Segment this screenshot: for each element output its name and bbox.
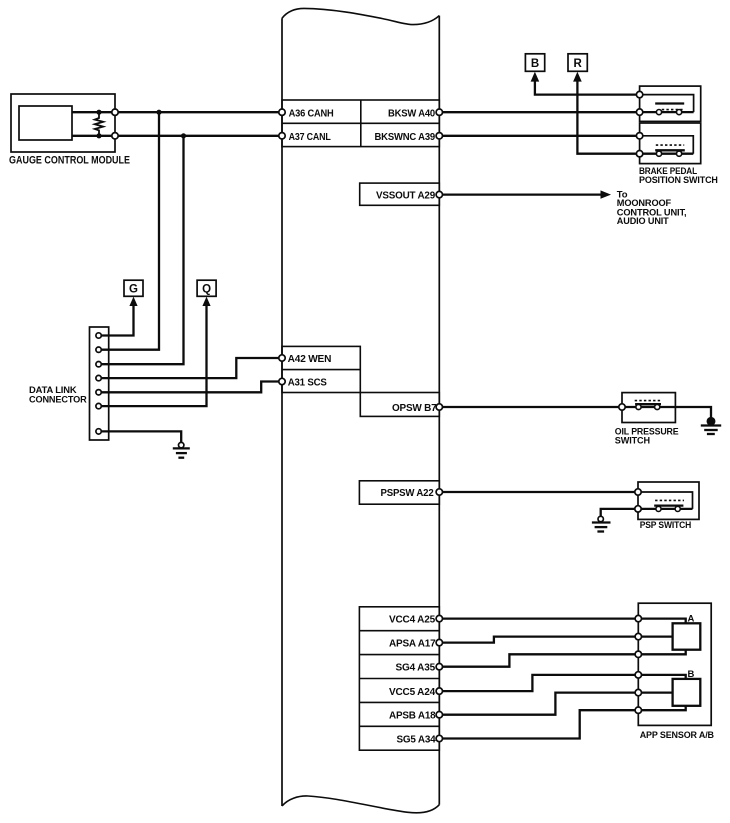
- svg-text:A42 WEN: A42 WEN: [288, 354, 332, 365]
- svg-text:VCC5 A24: VCC5 A24: [389, 687, 436, 698]
- APP sensor housing terminals (open circles): [635, 615, 641, 713]
- ECM pin terminals (open circles) on band edges: [96, 109, 443, 742]
- svg-text:VSSOUT A29: VSSOUT A29: [376, 190, 436, 201]
- arrowhead to R: [573, 72, 582, 82]
- pin label box OPSW B7: [360, 393, 439, 417]
- wire APSB A18 to APP sensor: [439, 693, 638, 715]
- brake switch 1 contact terminals: [656, 110, 681, 115]
- arrowhead to B: [531, 72, 540, 82]
- junction dot CANL/DLC branch: [181, 133, 186, 138]
- ECM band wavy bottom edge: [282, 796, 439, 813]
- DLC pin 7: [96, 429, 101, 434]
- PSP switch movable bar: [654, 504, 683, 506]
- pin label box PSPSW A22: [359, 481, 439, 504]
- svg-text:G: G: [129, 284, 138, 296]
- svg-text:SG4 A35: SG4 A35: [396, 663, 436, 674]
- ground symbol (DLC): [173, 442, 190, 457]
- wire brake switch to connector B: [535, 80, 640, 94]
- wire SG5 A34 to APP sensor: [439, 710, 638, 738]
- connector G box: [124, 280, 143, 296]
- wire oil pressure switch to ground: [675, 407, 711, 419]
- svg-text:A37 CANL: A37 CANL: [289, 132, 331, 143]
- terminal A35: [436, 664, 442, 670]
- DLC pin 2: [96, 347, 101, 352]
- DLC pin 1: [96, 333, 101, 338]
- svg-text:Q: Q: [202, 284, 211, 296]
- terminal A25: [436, 615, 442, 621]
- PSP switch contact terminals: [656, 506, 680, 511]
- PSP switch dotted travel line: [655, 499, 684, 501]
- svg-text:SG5 A34: SG5 A34: [397, 734, 437, 745]
- pin label box A36 CANH / A37 CANL / BKSW A40 / BKSWNC A39 (2x2 grid): [282, 100, 439, 147]
- svg-text:PSP SWITCH: PSP SWITCH: [640, 520, 692, 531]
- PSP switch housing terminals: [635, 489, 641, 512]
- brake switch 1 movable bar: [655, 102, 684, 104]
- brake switch 2 movable bar: [655, 149, 685, 151]
- oil pressure switch housing: [622, 393, 675, 423]
- APP sensor A/B housing: [638, 603, 711, 725]
- svg-text:R: R: [573, 58, 582, 70]
- terminal A36: [279, 109, 285, 115]
- wire BKSWNC A39 to brake pedal position switch: [439, 135, 639, 137]
- gauge control module outer box: [11, 94, 115, 152]
- wire brake switch to connector R: [577, 80, 639, 153]
- connector R box: [568, 54, 587, 72]
- wire DLC pin6 to connector Q: [99, 304, 207, 407]
- wire VCC5 A24 to APP sensor: [439, 675, 638, 691]
- wire CANL drop to DLC pin3: [99, 136, 184, 364]
- svg-text:B: B: [688, 669, 695, 680]
- brake switch 2 contact frame: [640, 136, 694, 154]
- svg-text:GAUGE CONTROL MODULE: GAUGE CONTROL MODULE: [9, 155, 130, 167]
- wire CANH from gauge module to ECM A36: [72, 111, 282, 113]
- wire CANH drop to DLC pin2: [99, 112, 159, 350]
- terminal gauge module CANL: [112, 133, 118, 139]
- svg-text:OPSW B7: OPSW B7: [392, 403, 437, 414]
- terminal A24: [436, 688, 442, 694]
- APP sensor internal wire pin6 to sensor B bottom: [638, 706, 685, 710]
- terminal gauge module CANH: [112, 109, 118, 115]
- wire PSP switch to ground: [601, 509, 638, 516]
- svg-text:POSITION SWITCH: POSITION SWITCH: [639, 175, 718, 186]
- wire DLC pin4 to ECM A42 WEN: [99, 358, 282, 378]
- APP sensor element B box: [673, 679, 701, 706]
- connector Q box: [197, 280, 216, 296]
- APP sensor internal wire pin3 to sensor A bottom: [638, 650, 685, 655]
- pin label box VCC4/APSA/SG4/VCC5/APSB/SG5 (6 rows): [359, 607, 439, 750]
- wire DLC pin1 to connector G: [99, 304, 134, 336]
- brake switch 2 dotted travel line: [656, 144, 684, 146]
- arrowhead VSSOUT: [601, 190, 612, 198]
- APP sensor internal wire pin4 to sensor B top: [638, 675, 685, 679]
- svg-text:APSB A18: APSB A18: [389, 711, 436, 722]
- svg-text:CONNECTOR: CONNECTOR: [29, 395, 87, 406]
- svg-text:SWITCH: SWITCH: [615, 435, 650, 446]
- ECM connector band right edge: [438, 16, 440, 805]
- terminal A42: [279, 355, 285, 361]
- terminal A37: [279, 133, 285, 139]
- brake switch 1 dotted travel line: [662, 109, 685, 111]
- wire VCC4 A25 to APP sensor: [439, 617, 638, 619]
- arrowhead to Q: [202, 297, 210, 306]
- APP sensor internal wire pin5 to sensor B left: [638, 691, 672, 693]
- PSP switch contact frame: [638, 492, 693, 509]
- junction dot CANH/DLC branch: [156, 110, 161, 115]
- svg-text:A31 SCS: A31 SCS: [288, 377, 328, 388]
- brake pedal position switch upper housing: [640, 86, 701, 121]
- brake switch 1 contact frame: [640, 95, 694, 113]
- wire PSPSW A22 to PSP switch: [439, 491, 638, 493]
- svg-text:PSPSW A22: PSPSW A22: [381, 488, 435, 499]
- svg-text:AUDIO UNIT: AUDIO UNIT: [617, 216, 669, 227]
- PSP switch housing: [638, 482, 699, 519]
- junction dot resistor top: [96, 110, 101, 115]
- brake pedal position switch lower housing: [640, 123, 701, 164]
- APP sensor internal wire pin2 to sensor A left: [638, 635, 672, 637]
- resistor (CAN termination) in gauge module: [95, 112, 103, 136]
- gauge control module inner unit box: [19, 106, 72, 140]
- terminal A31: [279, 378, 285, 384]
- APP sensor element A box: [673, 623, 701, 649]
- wire OPSW B7 to oil pressure switch: [439, 406, 622, 408]
- terminal A40: [436, 109, 442, 115]
- oil pressure switch contact terminals: [636, 404, 660, 409]
- svg-text:A: A: [688, 614, 695, 625]
- pin label box VSSOUT A29: [360, 183, 440, 205]
- terminal A34: [436, 735, 442, 741]
- wire DLC pin5 to ECM A31 SCS: [99, 382, 282, 393]
- junction dot resistor bottom: [96, 133, 101, 138]
- connector B box: [525, 54, 544, 72]
- terminal A29: [436, 191, 442, 197]
- brake switch housing terminals (open circles): [636, 91, 642, 156]
- ground symbol (PSP switch): [592, 516, 611, 531]
- terminal A22: [436, 489, 442, 495]
- wire CANL from gauge module to ECM A37: [72, 135, 282, 137]
- svg-text:B: B: [531, 58, 539, 70]
- svg-text:VCC4 A25: VCC4 A25: [389, 614, 436, 625]
- ground symbol (oil pressure switch, solid dot): [701, 418, 721, 434]
- arrowhead to G: [129, 297, 137, 306]
- data link connector body: [90, 327, 109, 440]
- DLC pin 5: [96, 390, 101, 395]
- terminal A39: [436, 133, 442, 139]
- APP sensor internal wire pin1 to sensor A top: [638, 619, 685, 624]
- oil pressure switch dotted travel line: [635, 400, 661, 402]
- brake switch 2 contact terminals: [656, 151, 681, 156]
- terminal A18: [436, 712, 442, 718]
- wire APSA A17 to APP sensor: [439, 637, 638, 643]
- ECM band wavy top edge: [282, 8, 439, 24]
- svg-text:A36 CANH: A36 CANH: [289, 108, 334, 119]
- DLC pin 3: [96, 362, 101, 367]
- svg-text:BKSWNC A39: BKSWNC A39: [375, 132, 436, 143]
- wire through oil pressure switch: [622, 406, 675, 408]
- terminal B7: [436, 404, 442, 410]
- oil pressure switch movable bar: [635, 403, 661, 405]
- ECM connector band left edge: [281, 18, 283, 806]
- wire VSSOUT A29 to moonroof/audio (arrow): [439, 193, 602, 195]
- terminal A17: [436, 639, 442, 645]
- DLC pin 4: [96, 375, 101, 380]
- svg-text:BKSW A40: BKSW A40: [388, 108, 436, 119]
- DLC pin 6: [96, 403, 101, 408]
- oil pressure switch housing terminal: [619, 404, 625, 410]
- wire DLC pin7 to ground: [99, 431, 182, 442]
- wire SG4 A35 to APP sensor: [439, 654, 638, 666]
- svg-text:APP SENSOR A/B: APP SENSOR A/B: [640, 730, 714, 741]
- pin label box A42 WEN / A31 SCS: [282, 346, 360, 392]
- svg-text:APSA A17: APSA A17: [389, 638, 436, 649]
- wire BKSW A40 to brake pedal position switch: [439, 111, 639, 113]
